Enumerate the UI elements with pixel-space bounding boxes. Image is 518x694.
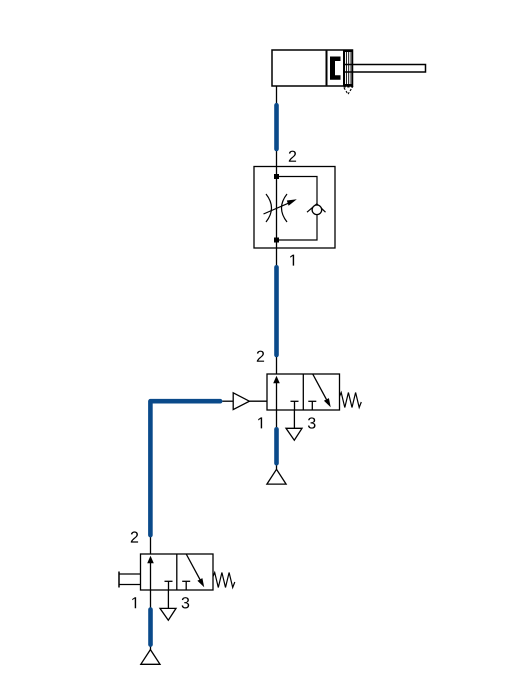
valve V1 exhaust	[293, 410, 295, 428]
throttle right arc	[282, 194, 288, 222]
flow valve bypass branch	[277, 177, 318, 241]
valve V2 return spring	[213, 573, 235, 588]
wire flow valve to valve V1	[276, 248, 278, 374]
throttle adjustment arrow	[264, 203, 290, 214]
pilot tube valve V2 to valve V1	[150, 401, 220, 535]
valve V2 port label 3	[182, 597, 190, 608]
valve V2 flow path 1-2	[150, 563, 152, 590]
tube cylinder to flow valve	[274, 105, 279, 149]
flow control valve outer box	[254, 167, 335, 249]
valve V1 port label 2	[257, 351, 264, 362]
valve V1 pneumatic pilot	[233, 393, 249, 410]
tube flow valve to valve V1	[274, 267, 279, 355]
tube valve V2 to supply	[148, 610, 153, 645]
cylinder port stub	[276, 86, 278, 167]
tube valve V1 to supply	[274, 429, 279, 463]
flow valve main line	[276, 167, 278, 249]
valve V2 supply stub	[150, 590, 152, 650]
flow valve junction bottom	[274, 238, 279, 243]
flow valve port label 2	[289, 151, 296, 162]
valve V1 blocked port right box	[308, 400, 316, 402]
cylinder piston magnet bracket	[330, 57, 341, 80]
valve V2 manual actuator	[118, 572, 120, 588]
wire valve V2 port 2	[150, 537, 152, 554]
valve V1 port label 1	[258, 417, 262, 428]
valve V2 flow path 2-3 right box	[186, 554, 200, 580]
compressed air supply V1	[267, 469, 286, 484]
cylinder piston line right	[343, 51, 345, 86]
compressed air supply V2	[141, 650, 160, 665]
valve V1 return spring	[340, 393, 362, 408]
check valve ball	[312, 205, 322, 215]
valve V2 blocked port left box	[165, 580, 173, 582]
valve V2 body	[141, 554, 214, 590]
cylinder body	[272, 50, 353, 86]
cylinder rod-side vent (dashed triangle)	[344, 87, 353, 94]
valve V1 supply stub	[276, 410, 278, 469]
valve V2 exhaust	[167, 590, 169, 608]
valve V1 body	[267, 374, 340, 410]
check valve seat	[307, 204, 326, 212]
cylinder return spring	[346, 51, 351, 86]
flow valve port label 1	[290, 255, 294, 266]
valve V2 port label 1	[132, 597, 136, 608]
valve V1 blocked port left box	[291, 400, 299, 402]
valve V2 blocked port right box	[182, 580, 190, 582]
valve V1 flow path 1-2	[276, 383, 278, 410]
cylinder piston rod	[344, 65, 426, 73]
valve V2 port label 2	[131, 531, 138, 542]
valve V1 flow path 2-3 right box	[313, 374, 327, 400]
valve V1 port label 3	[308, 417, 316, 428]
throttle left arc	[266, 194, 272, 222]
flow valve junction top	[274, 174, 279, 179]
cylinder piston line left	[326, 51, 328, 86]
